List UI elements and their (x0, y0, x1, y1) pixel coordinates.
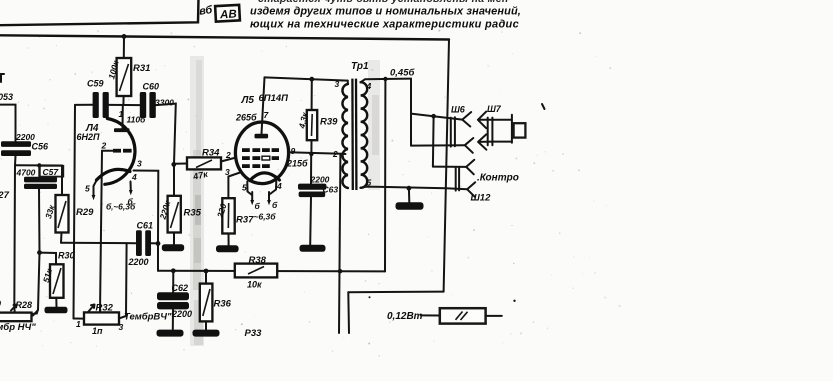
jack bar (511, 115, 513, 143)
junction dot R30 node (37, 250, 42, 255)
svg-text:2200: 2200 (15, 132, 35, 142)
wire contact 3 (433, 166, 466, 168)
ground stem near Тр1 (407, 186, 412, 191)
connector Ш7 arrow contact 1 (478, 112, 494, 129)
speck2 (369, 296, 371, 298)
svg-text:.Контро: .Контро (477, 173, 519, 184)
svg-text:R28: R28 (16, 300, 33, 310)
ground bar under C63 (300, 245, 326, 252)
cathode of Л4 (97, 169, 131, 180)
svg-text:R35: R35 (184, 208, 202, 219)
wires Ш7 to jack (493, 120, 511, 142)
svg-text:5: 5 (242, 183, 247, 193)
svg-text:C59: C59 (87, 79, 104, 89)
grid rows of Л5 (242, 148, 279, 168)
svg-text:старается чуть быть установлен: старается чуть быть установлены на мен (258, 0, 509, 5)
connector Ш7 body bars (487, 118, 489, 146)
wire C60 to coupling column (156, 104, 176, 164)
wire contact 1 (411, 114, 462, 120)
ground bar under C62 (157, 330, 184, 337)
svg-text:4: 4 (276, 181, 282, 191)
pin 5 stub (247, 182, 252, 196)
svg-text:2: 2 (225, 150, 231, 160)
resistor R35 (168, 164, 181, 244)
wiper arrow R28 (11, 305, 17, 311)
svg-text:1: 1 (119, 109, 124, 119)
wiper lead R32 (99, 308, 101, 312)
ground bar under R37 (216, 245, 239, 252)
wire feedback vertical to bottom bus (384, 79, 386, 271)
pin 3 lead of Л5 (228, 173, 240, 199)
svg-text:б: б (272, 200, 278, 210)
ground bar under R30 (45, 307, 68, 314)
capacitor C57 (24, 165, 57, 189)
junction dot R39 top (309, 77, 314, 82)
svg-text:1п: 1п (92, 326, 103, 336)
tube Л4 (6Н2П half) envelope (105, 119, 135, 185)
wire R29 to C61 (61, 242, 136, 245)
svg-text:R39: R39 (320, 117, 338, 128)
resistor R29 (56, 166, 69, 243)
svg-text:2: 2 (101, 141, 107, 151)
svg-text:2200: 2200 (171, 309, 192, 319)
wire pin9 screen to transformer tap (289, 152, 341, 154)
svg-text:АВ: АВ (219, 9, 237, 22)
resistor R30 (50, 264, 64, 307)
fuse/resistor 0,12 box (440, 308, 486, 323)
svg-text:4: 4 (131, 172, 137, 182)
wire to fuse left (421, 314, 440, 316)
svg-text:С63: С63 (323, 185, 339, 195)
stamp box АВ (215, 5, 240, 22)
wire grid down to R32 wiper (100, 151, 102, 313)
svg-text:Ш7: Ш7 (487, 104, 502, 114)
ground bar near Тр1 (396, 202, 424, 209)
title block box top-left (0, 0, 199, 25)
wire pin3 of Л4 to C61 node (134, 171, 159, 244)
wiper arrow R32 (89, 305, 95, 312)
anode of Л5 (255, 77, 269, 138)
junction dot bus/R31 (122, 34, 127, 39)
svg-text:3: 3 (137, 159, 142, 169)
svg-text:1: 1 (76, 319, 81, 329)
svg-text:С62: С62 (172, 283, 189, 293)
svg-text:Тр1: Тр1 (351, 61, 369, 72)
tube Л5 (6П14П) envelope (235, 122, 288, 184)
speck (513, 300, 515, 302)
connector Ш6 fork contact 1 (462, 112, 471, 127)
resistor R38 (235, 264, 277, 278)
svg-text:0: 0 (0, 299, 1, 309)
capacitor C63 (298, 154, 326, 245)
connector fork contact 3 (Контр) (466, 160, 474, 175)
svg-text:C60: C60 (143, 82, 160, 92)
svg-text:Р33: Р33 (245, 328, 263, 339)
wire bottom bus (158, 270, 385, 273)
svg-text:Ш12: Ш12 (471, 193, 492, 204)
resistor R34 (174, 157, 236, 169)
svg-text:Л5: Л5 (241, 95, 255, 106)
svg-text:R36: R36 (214, 299, 232, 310)
svg-text:R38: R38 (249, 255, 267, 266)
label C57 boxed (40, 166, 64, 177)
resistor R36 (200, 271, 213, 330)
transformer core (351, 79, 354, 190)
svg-text:C56: C56 (32, 142, 50, 152)
scan noise specks (0, 30, 620, 357)
svg-text:3300: 3300 (155, 98, 174, 108)
resistor R37 (222, 198, 234, 245)
capacitor C60 (140, 92, 156, 118)
heater arrows Л5 (250, 192, 271, 205)
junction dot C63 node (309, 152, 313, 156)
connector Ш12 fork contact 4 (467, 182, 475, 197)
svg-text:0,45б: 0,45б (390, 68, 415, 79)
svg-text:2: 2 (332, 149, 338, 159)
potentiometer R32 (74, 312, 120, 324)
wire: bus right corner down (444, 40, 449, 292)
svg-text:053: 053 (0, 92, 13, 102)
ground bar under R36 (193, 330, 220, 337)
svg-text:10к: 10к (247, 280, 262, 290)
capacitor C59 (93, 92, 109, 118)
svg-text:110б: 110б (127, 115, 147, 125)
wire pin3 stub (347, 81, 349, 84)
cathode of Л5 (250, 173, 280, 181)
svg-text:4: 4 (366, 81, 372, 91)
wire: long vertical C59 to R32 left (74, 105, 76, 319)
wire stub from left edge (0, 105, 16, 142)
cathode/heater lead pin 5 (94, 180, 98, 197)
svg-text:R30: R30 (58, 251, 75, 261)
wire down to contact 3 (432, 116, 435, 166)
wire fuse right (486, 315, 502, 317)
svg-text:б: б (255, 201, 261, 211)
svg-text:2200: 2200 (128, 257, 149, 267)
wire: bottom of loop to left (348, 291, 443, 294)
wire 0,45В down (410, 79, 412, 146)
svg-text:215б: 215б (286, 159, 308, 169)
svg-text:3: 3 (119, 322, 124, 332)
speck mark near Ш7 (542, 104, 545, 109)
svg-text:б,~6,3б: б,~6,3б (106, 202, 136, 212)
svg-text:С57: С57 (43, 167, 60, 177)
grid of Л4 (102, 149, 132, 153)
capacitor C62 (157, 271, 189, 330)
wire contact 2 (411, 144, 465, 146)
svg-text:R31: R31 (133, 63, 150, 74)
transformer Тр1 secondary winding (361, 82, 368, 188)
wire C61 node down to R32 right (119, 243, 127, 318)
resistor R31 (117, 36, 132, 105)
connector Ш6 body bars (450, 118, 452, 147)
wire C59 left to grid column (75, 104, 93, 106)
junction dot C57 node (37, 163, 41, 167)
svg-text:ембр НЧ": ембр НЧ" (0, 322, 36, 333)
pin 4 stub (270, 181, 276, 194)
svg-text:издемя других типов и номиналь: издемя других типов и номинальных значен… (250, 6, 521, 18)
junction dot bus/screen column (338, 269, 343, 274)
svg-text:R29: R29 (76, 207, 94, 218)
heater lead pin 4 with arrow (130, 182, 132, 191)
wire contact 4 (446, 188, 467, 189)
svg-text:ТембрВЧ": ТембрВЧ" (124, 312, 172, 323)
wire node down to R28 wiper (13, 165, 16, 312)
svg-text:R37: R37 (236, 215, 254, 226)
wire node down to bottom bus (157, 244, 159, 271)
scan smudge streak right (368, 60, 380, 190)
svg-text:R34: R34 (202, 148, 220, 159)
svg-text:5: 5 (85, 184, 90, 194)
svg-text:3: 3 (225, 167, 230, 177)
wire C57 down (38, 189, 41, 253)
svg-text:2200: 2200 (310, 175, 330, 185)
svg-text:6Н2П: 6Н2П (77, 132, 101, 142)
wire pin4 to 0,45В node (361, 79, 411, 83)
jack tip box (514, 123, 526, 137)
cut mark left edge (1, 74, 5, 82)
svg-text:265б: 265б (235, 113, 257, 123)
resistor R39 (307, 79, 317, 154)
junction dot C61/pin3 node (156, 241, 161, 246)
capacitor C61 (136, 230, 158, 256)
svg-text:9: 9 (291, 146, 296, 156)
connector Ш7 arrow contact 2 (478, 134, 493, 149)
svg-text:727: 727 (0, 190, 10, 201)
junction dot R36 (204, 269, 209, 274)
wire: top supply bus (0, 35, 449, 39)
wire C56 to node (14, 156, 17, 165)
ground bar under R35 (162, 244, 184, 251)
connector Ш6 fork contact 2 (465, 138, 474, 153)
scan smudge streak center (190, 56, 204, 346)
junction dot secondary feedback (383, 77, 387, 81)
wire C59-C60 through anode node (109, 104, 140, 106)
junction dot C62 (171, 268, 176, 273)
junction dot contact1/contact3 (431, 114, 436, 119)
slashes inside box (456, 312, 468, 321)
wire node to R29 (15, 164, 62, 166)
svg-text:R32: R32 (96, 303, 114, 314)
svg-text:Ш6: Ш6 (451, 105, 466, 115)
junction dot R34/R35 (171, 162, 176, 167)
svg-text:0,12Вт: 0,12Вт (387, 311, 423, 322)
svg-text:С61: С61 (137, 221, 154, 231)
wire node to R30 (40, 253, 57, 265)
svg-text:~6,3б: ~6,3б (254, 212, 277, 222)
wire C57 node down to R28 (33, 253, 40, 316)
wire anode to transformer pin3 (265, 77, 348, 80)
svg-text:ющих на технические характерис: ющих на технические характеристики радис (250, 19, 519, 31)
wire screen node down long (339, 154, 340, 333)
wire tap to winding (341, 153, 346, 155)
capacitor C56 (1, 141, 31, 156)
svg-text:4700: 4700 (16, 168, 36, 178)
wire pin5 to connectors (360, 187, 446, 189)
anode of Л4 (114, 105, 130, 132)
potentiometer R28 (cut at edge) (0, 310, 38, 321)
wire: loop tail down (347, 292, 350, 333)
connector Ш12 body bars (455, 167, 457, 190)
svg-text:3: 3 (335, 79, 340, 89)
transformer Тр1 primary winding (342, 84, 347, 188)
